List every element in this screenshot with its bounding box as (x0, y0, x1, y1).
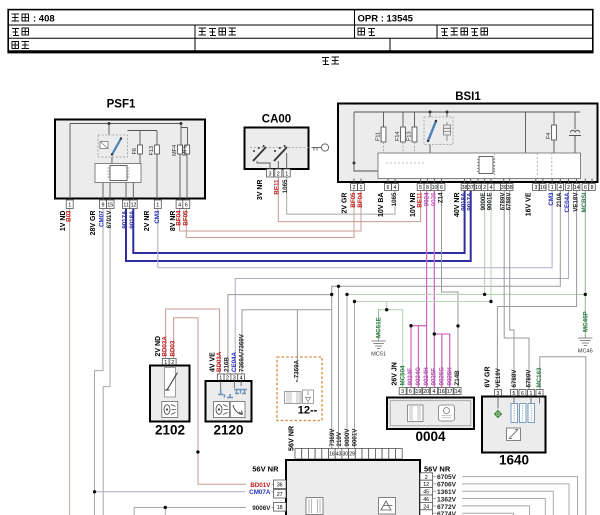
fuse F11 (376, 127, 386, 153)
svg-text:4: 4 (490, 185, 493, 191)
svg-text:1: 1 (285, 171, 288, 177)
svg-text:9024G: 9024G (415, 367, 422, 386)
wire 6701V down with jog to page bottom (103, 209, 110, 515)
ECU left pin 18 (274, 503, 287, 512)
svg-text:6789V: 6789V (526, 369, 533, 388)
ECU right pin 46 (420, 495, 433, 503)
svg-text:BE11: BE11 (274, 179, 281, 195)
svg-text:2V NR: 2V NR (144, 211, 151, 232)
svg-text:2: 2 (277, 171, 280, 177)
svg-text:CM07: CM07 (98, 210, 105, 227)
svg-text:6: 6 (440, 185, 443, 191)
wire 9000E green vertical from BSI pin2 (484, 191, 486, 295)
wire 9025 magenta BSI pin10 down to 0004 pins (434, 191, 449, 388)
wire 9024 magenta BSI pin8 down to 0004 pins (411, 191, 427, 388)
svg-text:14: 14 (455, 389, 461, 395)
svg-text:1065: 1065 (391, 192, 398, 206)
ignition switch CA00 (245, 114, 317, 170)
svg-text:17: 17 (447, 389, 453, 395)
svg-text:9025: 9025 (431, 192, 438, 206)
svg-text:9025F: 9025F (431, 368, 438, 386)
svg-text:16: 16 (329, 451, 335, 457)
svg-text:2102: 2102 (155, 423, 185, 438)
wire 6789V BSI pin39 to 1640 (504, 191, 529, 390)
svg-text:56V NR: 56V NR (252, 465, 279, 474)
PSF1 pin 4 (176, 200, 183, 209)
PSF1 pin 12 (130, 200, 137, 209)
svg-text:MF4: MF4 (172, 145, 178, 156)
shift lever unit 1640 (482, 397, 546, 468)
svg-text:MC46: MC46 (578, 349, 593, 355)
BSI1 internal wiring (354, 112, 592, 184)
fusebox PSF1 (55, 99, 205, 199)
svg-text:9025G: 9025G (439, 367, 446, 386)
svg-text:1: 1 (360, 185, 363, 191)
transmission connector 0004 (387, 398, 474, 445)
fuse F13 (407, 127, 417, 153)
svg-text:0004: 0004 (415, 429, 446, 444)
svg-text:3: 3 (401, 389, 404, 395)
svg-text:1: 1 (551, 185, 554, 191)
wire 6774V (433, 513, 514, 515)
wire 9001V drop to pin 29 (354, 302, 356, 449)
fuse F14 (395, 127, 405, 153)
header row3: 部件 (12, 42, 29, 50)
svg-text:29: 29 (349, 451, 355, 457)
svg-text:F4: F4 (546, 132, 552, 139)
svg-text:VE18V: VE18V (495, 367, 502, 387)
svg-text:BF04: BF04 (175, 210, 182, 226)
coolant sensor 2102 (150, 366, 190, 438)
svg-text:VE18V: VE18V (572, 192, 579, 212)
ECU left pin 36 (274, 480, 287, 489)
svg-text:12: 12 (131, 203, 137, 209)
svg-text:BD03A: BD03A (162, 336, 169, 357)
wire green MC504 y=309.7 with link (379, 302, 403, 388)
svg-text:6701V: 6701V (106, 210, 113, 229)
wire BE11 CA00 pin2 to BSI 10V NR pin5 (278, 177, 420, 222)
svg-text:MC51E: MC51E (375, 317, 382, 338)
svg-text:F13: F13 (149, 146, 155, 156)
svg-text:1: 1 (156, 203, 159, 209)
svg-text:8: 8 (426, 185, 429, 191)
svg-text:1065: 1065 (282, 179, 289, 193)
svg-text:37: 37 (468, 185, 474, 191)
svg-text:MC51: MC51 (371, 352, 386, 358)
svg-text:6774V: 6774V (437, 511, 457, 515)
fuse F4 (546, 125, 556, 140)
svg-text:MF5: MF5 (182, 145, 188, 156)
svg-text:9018A: 9018A (129, 210, 136, 229)
svg-text:39: 39 (501, 185, 507, 191)
wire green bus 9001 y=301.5 (355, 301, 492, 303)
svg-text:12--: 12-- (298, 405, 318, 417)
wire BD03 2102 pin2 down to BD01V pin36 (174, 318, 274, 485)
wire 1362V (433, 499, 546, 515)
fuse MF5 (182, 145, 189, 156)
svg-text:9001V: 9001V (352, 428, 359, 447)
svg-text:CE04A: CE04A (564, 192, 571, 212)
svg-text:1: 1 (68, 203, 71, 209)
wire 216B 2120 pin2 up and right (228, 295, 332, 374)
wire B03 (1V ND) vertical to page bottom (69, 209, 71, 515)
wire BF04 (8V NR) PSF1 pin4 to BSI 2V GR pin1 (180, 191, 361, 232)
svg-text:26V JN: 26V JN (392, 362, 399, 385)
svg-text:4: 4 (559, 185, 562, 191)
svg-text:9025H: 9025H (446, 367, 453, 386)
2120 pin 2 (224, 374, 231, 382)
svg-text:3V NR: 3V NR (257, 180, 264, 201)
svg-text:6: 6 (387, 185, 390, 191)
PSF1 pin 9 (100, 200, 107, 209)
body controller BSI1 (338, 91, 598, 182)
key symbol (312, 144, 329, 151)
wire 9001E green vertical from BSI pin4 (490, 191, 492, 302)
svg-text:Z14: Z14 (438, 192, 445, 203)
svg-text:10: 10 (432, 185, 438, 191)
svg-text:14: 14 (574, 185, 580, 191)
svg-text:2: 2 (483, 185, 486, 191)
wire MC51E green down to ground (378, 310, 380, 338)
svg-text:1361V: 1361V (437, 489, 457, 496)
svg-text:9001E: 9001E (487, 193, 494, 211)
svg-text:6788V: 6788V (506, 192, 513, 211)
svg-text:MC163: MC163 (536, 367, 543, 388)
svg-text:BF04: BF04 (357, 192, 364, 208)
wire 6772V (433, 506, 530, 515)
svg-text:2: 2 (567, 185, 570, 191)
ECU left pin 27 (274, 489, 287, 498)
svg-text:30: 30 (343, 451, 349, 457)
0004 pin row: 3 6 19 20 4 16 17 14 (399, 388, 461, 395)
svg-text:F13: F13 (407, 131, 413, 141)
svg-text:BD01V: BD01V (250, 482, 271, 489)
svg-text:16: 16 (540, 185, 546, 191)
svg-text:210A: 210A (556, 192, 563, 207)
ECU right pin 12 (420, 480, 433, 488)
wire CM07A horizontal to pin 27 (95, 491, 274, 493)
svg-text:F11: F11 (376, 132, 382, 141)
svg-text:PSF1: PSF1 (107, 99, 136, 111)
svg-text:36: 36 (277, 483, 283, 489)
wire Z14 BSI pin6 jog to Z14B 0004 pin14 (442, 191, 459, 388)
CA00 pin 3 (267, 169, 274, 177)
svg-text:216B: 216B (224, 357, 231, 372)
PSF1 pin 11 (122, 200, 129, 209)
2120 pin 1 (217, 374, 224, 382)
wire 210A BSI pin4 down-left (332, 191, 561, 287)
fuse F13 (149, 145, 159, 156)
wire 9000V drop to pin 30 (346, 294, 348, 448)
svg-text:: 408: : 408 (33, 13, 55, 24)
svg-text:2120: 2120 (213, 423, 243, 438)
wire VE18V BSI pin14 to 1640 pin3 (497, 191, 576, 390)
svg-text:BD03A: BD03A (216, 351, 223, 372)
wire 7369V vertical to pin 16 (331, 286, 333, 448)
PSF1 pin 15 (107, 200, 114, 209)
svg-text:CM3: CM3 (548, 192, 555, 206)
wire 9006V horizontal to pin 18, stubs to bottom (134, 508, 273, 515)
svg-text:- 7369A: - 7369A (293, 359, 300, 382)
BSI1 pin row (351, 184, 596, 191)
header row2: 范围 | 动力总成 | 功能 | 自动变速箱 (12, 28, 488, 36)
svg-text:56V NR: 56V NR (286, 425, 295, 451)
svg-text:27: 27 (277, 492, 283, 498)
choke coil (569, 127, 581, 140)
svg-text:11: 11 (123, 203, 128, 209)
svg-text:MCBSI: MCBSI (581, 192, 588, 212)
svg-text:43: 43 (336, 451, 342, 457)
svg-text:18: 18 (277, 505, 283, 511)
svg-text:4: 4 (394, 185, 397, 191)
svg-text:16: 16 (439, 389, 445, 395)
svg-text:6788V: 6788V (511, 369, 518, 388)
svg-text:CM3: CM3 (154, 210, 161, 224)
engine/transmission ECU (bottom box) (286, 460, 420, 515)
header table frame (8, 10, 593, 53)
svg-text:6772V: 6772V (437, 504, 457, 511)
svg-text:9: 9 (102, 203, 105, 209)
wire 210V drop to pin 43 (338, 286, 340, 448)
svg-text:4: 4 (178, 203, 181, 209)
svg-text:9024: 9024 (424, 192, 431, 206)
svg-text:38: 38 (507, 185, 513, 191)
svg-text:8: 8 (591, 185, 594, 191)
svg-text:19: 19 (416, 389, 422, 395)
1640 pin row: 3 5 6 1 4 (495, 390, 544, 397)
svg-text:BF05: BF05 (350, 192, 357, 208)
PSF1 pin 6 (183, 200, 190, 209)
ground MC51 (372, 338, 386, 349)
svg-text:2V GR: 2V GR (341, 193, 348, 214)
wire 1361V (433, 491, 554, 515)
wire 6706V (433, 484, 570, 515)
wire CE04A BSI 16V VE pin2 to 2120 pin3 (235, 191, 568, 375)
svg-text:9000V: 9000V (344, 428, 351, 447)
wire green bus MCBSI/9000 y=294.4 (347, 293, 585, 295)
svg-text:7369A/7369V: 7369A/7369V (238, 333, 245, 372)
svg-text:20: 20 (423, 389, 429, 395)
title 原理 (322, 57, 339, 65)
ECU right pin 2 (420, 473, 433, 481)
svg-text:10V BA: 10V BA (378, 193, 385, 218)
wire BF05 PSF1 pin6 to BSI 2V GR pin2 (186, 191, 354, 238)
svg-text:Z14B: Z14B (454, 370, 461, 386)
2120 pin 3 (231, 374, 238, 382)
wire MC163 1640 pin4 right and down to bottom edge (540, 357, 586, 515)
wire BD03A 2102 pin1 to 2120 pin1 (166, 309, 220, 374)
wire CM3 (2V NR) PSF1 pin1 to BSI 16V VE pin1 (158, 191, 552, 268)
svg-text:B03: B03 (65, 210, 72, 222)
PSF1 pin 1 (2V NR) (154, 200, 161, 209)
svg-text:2: 2 (353, 185, 356, 191)
wire CM07 (28V GR) down with jog, to CM07A junction and page bottom (95, 209, 104, 515)
svg-text:16V VE: 16V VE (525, 192, 532, 216)
svg-text:MC504: MC504 (399, 365, 406, 386)
gear selector 2120 (206, 381, 252, 438)
CA00 pin 1 (283, 169, 290, 177)
PSF1 internal wiring (70, 124, 188, 201)
CA00 pin 2 (275, 169, 282, 177)
svg-text:9024H: 9024H (423, 367, 430, 386)
svg-text:6: 6 (584, 185, 587, 191)
PSF1 pin 1 (66, 200, 73, 209)
fuse F6 (132, 145, 142, 155)
svg-text:56V NR: 56V NR (424, 465, 451, 474)
svg-text:38: 38 (462, 185, 468, 191)
svg-text:5: 5 (419, 185, 422, 191)
svg-text:9017A: 9017A (122, 210, 129, 229)
svg-text:BSI1: BSI1 (455, 91, 481, 103)
wire 6788V BSI pin38 to 1640 pin5 (510, 191, 514, 390)
fuse MF4 (172, 145, 182, 156)
wire 9017A blue thick PSF1 pin11 to BSI pin37 (126, 191, 471, 262)
svg-text:7369V: 7369V (329, 428, 336, 447)
BSI1 internal module box with IC (378, 153, 581, 179)
ECU top pin row (295, 449, 402, 460)
svg-text:BF05: BF05 (183, 210, 190, 226)
wire 9018A blue thick PSF1 pin12 to BSI pin38 (133, 191, 464, 254)
svg-text:1640: 1640 (499, 453, 529, 468)
svg-text:CM07A: CM07A (249, 489, 271, 496)
svg-text:28V GR: 28V GR (90, 211, 97, 236)
svg-text:6: 6 (185, 203, 188, 209)
ground MC46 (578, 335, 592, 346)
svg-text:210V: 210V (336, 431, 343, 446)
relay K in PSF1 (dashed) (98, 135, 128, 157)
svg-text:4: 4 (433, 389, 436, 395)
wire MCBSI green BSI pin6 down to MC46 ground (584, 191, 586, 336)
ECU right pin 45 (420, 488, 433, 496)
svg-text:3: 3 (269, 171, 272, 177)
header row1: 车辆 : 408 (12, 13, 55, 24)
svg-text:CE04A: CE04A (231, 352, 238, 372)
wire 1065 CA00 pin1 to BSI 10V BA pin4 (287, 177, 395, 214)
svg-text:15: 15 (107, 203, 113, 209)
svg-text:10: 10 (475, 185, 481, 191)
svg-text:MC46P: MC46P (582, 311, 589, 332)
2102 pin 1 (162, 359, 169, 367)
svg-text:1362V: 1362V (437, 496, 457, 503)
wire 7369A 2120 pin4 up and right, branch into 12-- box (242, 310, 332, 382)
svg-text:OPR : 13545: OPR : 13545 (358, 13, 414, 24)
svg-text:BD03: BD03 (170, 340, 177, 356)
ECU right pin 24 (420, 502, 433, 510)
svg-text:9006V: 9006V (252, 505, 271, 512)
svg-text:F14: F14 (395, 131, 401, 141)
PSF1 internal module box with IC (95, 164, 141, 183)
wire 6705V right side to bottom edge (433, 477, 578, 515)
relay in BSI1 (dashed box, blue blade, coil) (424, 117, 453, 145)
svg-text:F6: F6 (132, 148, 138, 155)
svg-text:6705V: 6705V (437, 474, 457, 481)
svg-text:CA00: CA00 (262, 114, 291, 126)
svg-text:9024F: 9024F (407, 368, 414, 386)
svg-text:6: 6 (409, 389, 412, 395)
svg-text:6706V: 6706V (437, 482, 457, 489)
ECU right pin (cut) (420, 510, 433, 515)
2102 pin 2 (169, 359, 176, 367)
2120 pin 4 (238, 374, 245, 382)
svg-text:3: 3 (534, 185, 537, 191)
svg-text:9017A: 9017A (467, 192, 474, 211)
svg-text:6V GR: 6V GR (484, 366, 491, 387)
